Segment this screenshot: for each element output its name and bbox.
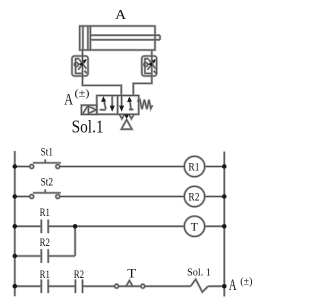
svg-text:R2: R2 [188,190,199,204]
svg-text:R2: R2 [40,235,50,249]
svg-text:Sol.1: Sol.1 [72,116,104,136]
svg-text:St1: St1 [41,145,53,159]
svg-text:Sol. 1: Sol. 1 [187,268,211,279]
svg-text:R1: R1 [188,160,199,174]
svg-text:R2: R2 [74,267,84,281]
svg-text:(±): (±) [75,88,90,99]
svg-text:T: T [127,267,136,281]
svg-text:R1: R1 [40,205,50,219]
svg-text:St2: St2 [41,175,53,189]
svg-text:A: A [115,7,126,22]
svg-text:A: A [229,277,237,294]
svg-text:R1: R1 [40,267,50,281]
svg-text:A: A [64,91,73,108]
svg-text:T: T [191,219,199,233]
svg-text:(±): (±) [240,277,252,288]
